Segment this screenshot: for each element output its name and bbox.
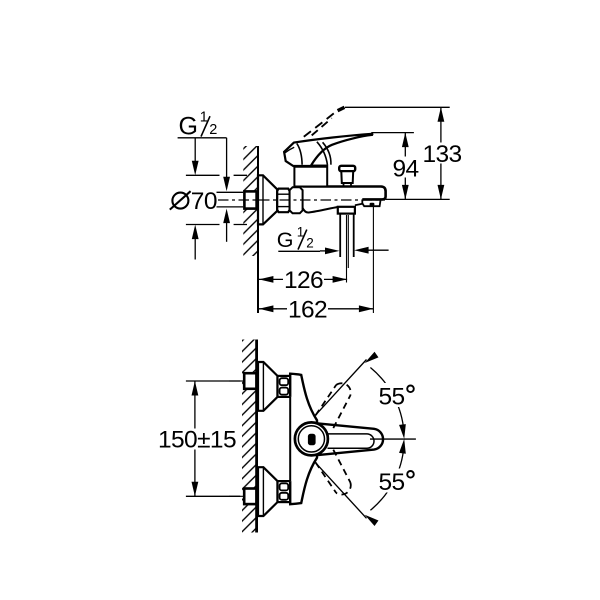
G 1/2 outlet label underline [278,250,320,252]
wall hatching (side view) [243,146,257,256]
raised lever dashed line lower [312,118,332,135]
hex union nut (side view) [277,189,289,213]
raised lever solid tip [338,107,345,110]
diverter knob cap [339,166,355,171]
svg-text:94: 94 [393,155,419,182]
dimension Ø70 extension line top [186,174,247,176]
stub centerline companion line [347,215,349,268]
wall union square top (plan) [244,373,256,389]
stub centerline / 126 extension line [346,215,348,283]
escutcheon flange line [262,175,264,224]
svg-text:2: 2 [306,236,314,251]
centerline reference extension (right) [385,198,449,200]
dimension 94 extension line (lever tip) [371,132,414,134]
swivel axis line upper (55°) [315,360,367,416]
diverter knob stem [341,171,353,183]
diverter knob neck [344,183,352,186]
dimension Ø70 extension line bottom [186,224,247,226]
leader line to square bottom [217,206,244,208]
escutcheon cone (side view) [258,175,277,224]
svg-text:162: 162 [288,297,327,324]
faucet body (side view) [303,187,386,200]
dimension 94 line [404,133,406,200]
leader line to square top [217,191,244,193]
svg-text:126: 126 [284,267,323,294]
svg-text:150±15: 150±15 [158,427,236,454]
G 1/2 leader to square (from above) [226,138,228,181]
svg-text:70: 70 [191,188,217,215]
shower hose stub left edge [339,214,341,257]
G 1/2 outlet right arrow [367,249,389,251]
body inlet connector [290,187,303,213]
shower hose union collar [338,207,355,214]
wall union square bottom (plan) [244,489,256,505]
cartridge base housing [294,166,327,187]
centerline (dash-dot axis of faucet body) [218,199,385,201]
G 1/2 outlet left arrow [320,250,327,252]
handle sketch curve 3 (right skirt) [323,142,331,164]
nut flat line top [277,193,289,195]
handle dome inner circle (plan) [298,426,324,452]
dimension 126 text [283,269,324,289]
raised lever dashed line upper [304,110,338,137]
body back edge (plan) [289,397,291,481]
hex nut top (plan) [278,376,291,397]
faucet body silhouette (plan) [290,374,317,505]
svg-text:G: G [179,113,198,141]
horizontal axis line (plan) [370,438,416,440]
G 1/2 arrow to square (from below) [226,219,228,242]
dimension 150±15 text [157,429,233,450]
body underside contour right segment [355,204,362,206]
inlet centerline bottom [229,495,244,497]
lever handle (rest position) outline [284,134,372,166]
dimension 150±15 extension line top [186,380,240,382]
svg-text:G: G [277,228,294,252]
162 extension line (aerator) [372,207,374,313]
svg-text:2: 2 [209,122,217,138]
dashed lever position lower [316,450,351,495]
handle dome outer circle (plan) [295,422,328,455]
wall hatching (plan view) [242,340,256,533]
escutcheon cone bottom (plan) [258,467,278,516]
angle arc upper 55° [370,368,404,432]
escutcheon cone top (plan) [258,362,278,411]
lever tip [371,134,374,136]
Ø70 arrow from below [194,236,196,259]
svg-text:133: 133 [423,141,462,168]
dimension 150±15 extension line bottom [186,495,240,497]
55° text upper [376,383,418,407]
aerator slot (dark) [370,203,375,206]
nut flat line bottom [277,206,289,208]
svg-text:55: 55 [379,469,405,496]
logo mark on dome [308,434,316,446]
Ø70 label: diameter symbol [172,193,188,209]
dimension 133 text [422,143,462,164]
lever inner contour (plan) [328,434,375,448]
G 1/2 label underline [178,137,227,139]
dimension 94 text [392,157,419,178]
handle sketch curve left [285,147,294,153]
hex nut bottom (plan) [278,481,291,502]
dimension 162 line [259,308,374,310]
shower hose stub right edge [353,214,355,257]
dimension 126 line [259,278,347,280]
svg-text:55: 55 [379,384,405,411]
angle arc lower 55° [370,446,404,510]
dimension 162 text [287,299,328,319]
dimension 133 extension line (raised lever tip) [345,106,450,108]
55° text lower [376,469,418,493]
handle sketch curve 1 [297,143,302,164]
Ø70 arrow from above [194,139,196,164]
wall face line (side view) [257,146,259,313]
lever (plan view) [318,423,383,455]
swivel axis line lower (55°) [315,462,367,518]
inlet centerline top [229,380,244,382]
body underside contour [303,207,338,213]
dimension 133 line [440,107,442,199]
handle sketch curve 2 [317,142,328,165]
aerator / spout outlet [362,200,380,207]
wall face line (plan view) [255,340,258,533]
dimension 150±15 line [194,381,196,496]
cartridge base top thick edge [294,165,327,168]
dashed lever position upper [316,383,351,428]
G 1/2 wall union square fitting [244,191,256,208]
